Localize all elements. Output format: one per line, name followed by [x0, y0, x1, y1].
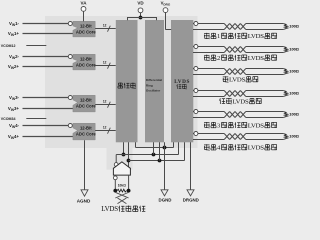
- junction dot rail B left: [122, 153, 126, 157]
- svg-text:100Ω: 100Ω: [289, 24, 299, 29]
- svg-text:100Ω: 100Ω: [289, 112, 299, 117]
- twisted pair symbol ch1: [224, 24, 246, 30]
- svg-text:100Ω: 100Ω: [289, 69, 299, 74]
- svg-text:Differential: Differential: [146, 78, 162, 82]
- svg-text:Ring: Ring: [146, 83, 153, 87]
- wire VD bracket: [128, 18, 157, 21]
- wire VIN2-: [23, 56, 71, 58]
- ADC core block channel 1 (12-Bit ADC Core): [73, 21, 95, 37]
- background panel: [45, 16, 198, 148]
- svg-text:ADC Core: ADC Core: [76, 104, 96, 109]
- pin circle clock buffer -: [113, 176, 117, 180]
- svg-text:12: 12: [103, 24, 107, 28]
- svg-text:1: 1: [217, 33, 220, 40]
- wire VIN2+: [23, 66, 74, 68]
- twisted pair symbol ch2: [224, 47, 246, 53]
- wire rail B horizontal: [116, 154, 178, 156]
- junction dot VD: [139, 16, 143, 20]
- ADC core block channel 2 (12-Bit ADC Core): [73, 54, 95, 70]
- wire LVDS output pair ch4 top line: [193, 133, 224, 135]
- serializer label (CJK: chuan hang qi): [118, 83, 123, 89]
- pin circle frame: [194, 67, 198, 71]
- label frame LVDS output (CJK): [223, 76, 229, 82]
- LVDS driver block: [171, 20, 193, 142]
- pin circle VA: [81, 6, 86, 11]
- ground symbol DRGND: [187, 190, 194, 196]
- pin circle on VIN2- input: [68, 55, 72, 59]
- LVDS driver label (CJK: qu dong): [177, 84, 182, 89]
- pin circle ch3: [194, 110, 198, 114]
- pin circle clock buffer +: [114, 163, 118, 167]
- wire rail B left drop to buffer: [115, 155, 117, 163]
- twisted pair symbol ch3: [224, 112, 246, 118]
- svg-text:100Ω: 100Ω: [289, 47, 299, 52]
- wire LVDS output pair ch2 bottom line: [193, 52, 224, 54]
- label clock LVDS output (CJK): [220, 98, 226, 104]
- bus slash ADC2: [108, 63, 111, 69]
- svg-text:LVDS: LVDS: [229, 77, 246, 84]
- svg-text:ADC Core: ADC Core: [76, 63, 96, 68]
- wire LVDS output pair clock bottom line: [193, 96, 224, 98]
- ADC core block channel 4 (12-Bit ADC Core): [73, 123, 95, 140]
- clock buffer (house shape): [113, 162, 130, 175]
- wire VIN3-: [23, 97, 71, 99]
- pin circle ch2: [194, 45, 198, 49]
- svg-text:LVDS: LVDS: [248, 33, 265, 40]
- svg-text:100Ω: 100Ω: [289, 91, 299, 96]
- svg-text:12: 12: [103, 126, 107, 130]
- resistor 10k zigzag: [117, 189, 126, 192]
- differential ring oscillator block: [145, 20, 164, 142]
- wire VIN1+: [23, 33, 74, 35]
- bus slash ADC1: [108, 26, 111, 32]
- junction dot rail C left: [127, 159, 131, 163]
- svg-text:ADC Core: ADC Core: [76, 30, 96, 35]
- svg-text:2: 2: [217, 55, 220, 62]
- termination resistor 100ohm ch3: [283, 112, 288, 118]
- bus slash ADC4: [108, 128, 111, 134]
- twisted pair symbol clock: [224, 91, 246, 97]
- svg-text:12-Bit: 12-Bit: [80, 57, 92, 62]
- junction dot 10k left: [113, 189, 117, 193]
- wire rail A serializer stub: [135, 142, 137, 147]
- wire rail C serializer stub down through buffer: [128, 142, 130, 167]
- junction dot rail C ring osc: [158, 159, 162, 163]
- wire VCOM34 stub: [26, 118, 46, 120]
- wire LVDS output pair frame top line: [193, 68, 224, 70]
- wire rail A LVDS stub: [173, 142, 175, 147]
- pin circle clock: [194, 89, 198, 93]
- svg-text:Oscillator: Oscillator: [146, 89, 161, 93]
- svg-text:VCOM34: VCOM34: [1, 117, 16, 121]
- svg-text:LVDS: LVDS: [174, 79, 189, 85]
- wire VA to ADC1: [83, 11, 85, 21]
- wire VIN1-: [23, 23, 71, 25]
- svg-text:DGND: DGND: [159, 198, 172, 203]
- svg-text:12: 12: [103, 100, 107, 104]
- pin circle VDRG: [163, 8, 168, 13]
- wire VCOM12 stub: [26, 45, 46, 47]
- label channel 1 serialized LVDS output (CJK): [204, 33, 210, 39]
- wire LVDS output pair ch3 bottom line: [193, 117, 224, 119]
- svg-text:VA: VA: [81, 1, 88, 6]
- svg-text:VCOM12: VCOM12: [1, 44, 16, 48]
- wire VDRG down: [165, 12, 167, 29]
- termination resistor 100ohm ch2: [283, 47, 288, 53]
- svg-text:100Ω: 100Ω: [289, 134, 299, 139]
- wire DGND vertical: [164, 142, 166, 190]
- wire rail B ring osc stub: [153, 142, 155, 154]
- svg-text:12: 12: [103, 61, 107, 65]
- svg-text:LVDS: LVDS: [248, 145, 265, 152]
- label channel 3 serialized LVDS output (CJK): [204, 122, 210, 128]
- wire LVDS output pair ch1 top line: [193, 23, 224, 25]
- svg-text:12-Bit: 12-Bit: [80, 24, 92, 29]
- pin circle on VIN3- input: [68, 96, 72, 100]
- svg-text:ADC Core: ADC Core: [76, 132, 96, 137]
- bus slash ADC3: [108, 102, 111, 108]
- wire LVDS output pair ch3 top line: [193, 111, 224, 113]
- termination resistor 100ohm ch1: [283, 24, 288, 30]
- junction dot rail A / DGND: [163, 146, 167, 150]
- wire LVDS output pair ch4 bottom line: [193, 139, 224, 141]
- label channel 2 serialized LVDS output (CJK): [204, 55, 210, 61]
- wire DRGND vertical: [190, 142, 192, 190]
- ground symbol AGND: [81, 190, 88, 196]
- junction dot rail B ring osc: [152, 153, 156, 157]
- junction dot 10k right: [127, 189, 131, 193]
- background panel extension below clock buffer: [107, 148, 133, 170]
- ground symbol DGND: [161, 190, 168, 196]
- wire LVDS output pair ch1 bottom line: [193, 29, 224, 31]
- svg-text:10kΩ: 10kΩ: [118, 183, 127, 187]
- wire VIN4+: [23, 136, 74, 138]
- svg-text:LVDS: LVDS: [248, 55, 265, 62]
- termination resistor 100ohm ch4: [283, 134, 288, 140]
- ADC core block channel 3 (12-Bit ADC Core): [73, 95, 95, 112]
- wire AGND from ADC4: [84, 140, 86, 190]
- svg-text:AGND: AGND: [77, 199, 91, 204]
- wire ADC1 output bus to serializer: [95, 28, 116, 30]
- wire rail A horizontal: [136, 147, 174, 149]
- pin circle ch1: [194, 22, 198, 26]
- wire rail B LVDS stub: [178, 142, 180, 154]
- wire buffer right down: [128, 175, 130, 191]
- wire VIN4-: [23, 125, 71, 127]
- twisted pair clock input X1: [115, 192, 128, 198]
- termination resistor 100ohm clock: [283, 91, 288, 97]
- svg-text:LVDS: LVDS: [232, 98, 249, 105]
- twisted pair symbol frame: [224, 69, 246, 75]
- wire VD down: [140, 12, 142, 17]
- wire rail C horizontal: [129, 160, 185, 162]
- wire ADC4 output bus to serializer: [95, 130, 116, 132]
- wire LVDS output pair frame bottom line: [193, 74, 224, 76]
- wire LVDS output pair clock top line: [193, 90, 224, 92]
- twisted pair clock input X2: [118, 198, 127, 204]
- wire rail C ring osc stub: [159, 142, 161, 160]
- svg-text:VD: VD: [137, 1, 144, 6]
- svg-text:DRGND: DRGND: [183, 198, 199, 203]
- pin circle ch4: [194, 132, 198, 136]
- serializer block: [116, 20, 138, 142]
- wire ADC2 output bus to serializer: [95, 65, 116, 67]
- wire buffer left output down: [114, 175, 116, 191]
- wire rail B serializer stub: [123, 142, 125, 154]
- wire rail C LVDS stub: [184, 142, 186, 160]
- svg-text:12-Bit: 12-Bit: [80, 98, 92, 103]
- pin circle VD: [138, 8, 143, 13]
- svg-text:LVDS: LVDS: [101, 205, 118, 213]
- termination resistor 100ohm frame: [283, 69, 288, 75]
- pin circle on VIN1- input: [68, 22, 72, 26]
- pin circle on VIN4- input: [68, 124, 72, 128]
- label channel 4 serialized LVDS output (CJK): [204, 144, 210, 150]
- wire VIN3+: [23, 108, 74, 110]
- wire ADC3 output bus to serializer: [95, 104, 116, 106]
- svg-text:12-Bit: 12-Bit: [80, 126, 92, 131]
- wire LVDS output pair ch2 top line: [193, 46, 224, 48]
- twisted pair symbol ch4: [224, 134, 246, 140]
- svg-text:LVDS: LVDS: [248, 122, 265, 129]
